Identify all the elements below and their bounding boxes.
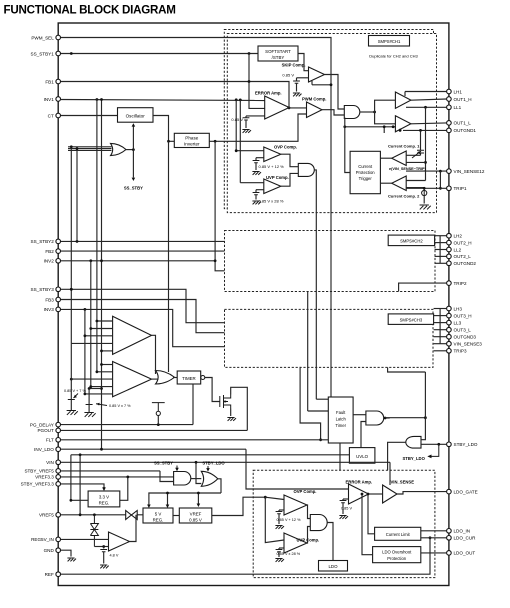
svg-text:0.85 V x 7 %: 0.85 V x 7 % xyxy=(109,404,131,408)
svg-text:4.8 V: 4.8 V xyxy=(110,554,119,558)
wire STBY_VREF5 xyxy=(61,470,160,472)
svg-text:0.85 V x 28 %: 0.85 V x 28 % xyxy=(277,552,301,556)
svg-text:LDO: LDO xyxy=(328,564,338,569)
svg-text:VIN_SENSE: VIN_SENSE xyxy=(391,479,415,484)
pin INV3 xyxy=(56,307,61,312)
wire cc2 inputs xyxy=(406,180,425,182)
op-amp current comparator 2 xyxy=(392,176,407,191)
wire OUT3_L xyxy=(434,329,447,331)
wire LL2 xyxy=(435,249,447,251)
wire cc2 out xyxy=(380,182,391,184)
wire trigger to low driver xyxy=(345,126,396,128)
wire fault and output xyxy=(384,417,390,419)
svg-text:SKIP Comp.: SKIP Comp. xyxy=(282,62,306,67)
pin INV2 xyxy=(56,259,61,264)
bus INV1 down xyxy=(96,99,98,372)
softstart box xyxy=(258,46,298,61)
dashed box CH1 inner xyxy=(227,34,436,213)
wire STBY_VREF3.3 xyxy=(61,484,104,488)
wire REF xyxy=(61,538,430,574)
wire bus inv1 down to UVP xyxy=(239,100,241,183)
wire OUT2_L xyxy=(435,255,447,257)
wire fault ch1 down to latch xyxy=(314,170,316,399)
pin LDO_GATE xyxy=(447,489,452,494)
svg-text:LDO_IN: LDO_IN xyxy=(454,529,471,534)
pin FB2 xyxy=(56,249,61,254)
wire ss_stby label arrow xyxy=(176,466,178,469)
pin TRIP2 xyxy=(447,281,452,286)
pin TRIP1 xyxy=(447,186,452,191)
svg-text:0.85 V + 7 %: 0.85 V + 7 % xyxy=(64,389,86,393)
svg-text:UVLO: UVLO xyxy=(356,454,369,459)
svg-text:/STBY: /STBY xyxy=(272,55,285,60)
wire VREF3.3 wrap xyxy=(61,477,128,500)
wire phase inverter signal to pwm comp xyxy=(226,114,307,141)
svg-text:STBY_VREF3.3: STBY_VREF3.3 xyxy=(21,482,55,487)
wire reg33 left xyxy=(70,455,72,501)
wire ovp ldo to and xyxy=(307,505,310,519)
wire TRIP3 xyxy=(434,350,447,352)
wire VIN xyxy=(61,461,390,463)
wire vref33 to master and xyxy=(128,476,174,478)
wire fault ch3 down xyxy=(300,367,321,440)
svg-text:SS_STBY3: SS_STBY3 xyxy=(31,287,55,292)
wire current limit ldo_cur xyxy=(421,537,447,539)
svg-text:Trigger: Trigger xyxy=(359,176,373,181)
driver amp low side xyxy=(395,116,411,132)
wire aux to ref2 xyxy=(89,388,101,390)
wire uvlo input xyxy=(71,454,350,456)
wire fault to stby gate xyxy=(421,372,425,440)
wire oscillator output to phase inverter xyxy=(153,116,174,142)
current source TRIP1 xyxy=(422,190,427,195)
svg-text:Oscillator: Oscillator xyxy=(126,114,146,119)
label box SMPS#CH1 xyxy=(369,36,410,47)
svg-text:0.85 V: 0.85 V xyxy=(282,73,294,78)
dashed box CH3 xyxy=(225,309,434,367)
svg-text:INV2: INV2 xyxy=(44,259,55,264)
svg-text:FB1: FB1 xyxy=(45,79,54,84)
op-amp OVP comparator CH1 xyxy=(264,147,281,162)
wire uvp ldo to and xyxy=(307,527,310,544)
pin FLT xyxy=(56,438,61,443)
svg-text:LL1: LL1 xyxy=(454,105,462,110)
zener pair D1 xyxy=(90,515,98,547)
vref ldo ovp xyxy=(279,509,284,511)
pin VIN xyxy=(56,460,61,465)
wire ovp to and xyxy=(281,154,299,167)
wire OUT3_H xyxy=(434,315,447,317)
pin TRIP3 xyxy=(447,349,452,354)
svg-text:VREF3.3: VREF3.3 xyxy=(35,475,54,480)
svg-text:TRIP1: TRIP1 xyxy=(454,186,467,191)
bus INV2 down xyxy=(90,261,92,387)
svg-text:OVP Comp.: OVP Comp. xyxy=(274,145,297,150)
wire and master out to or xyxy=(191,478,202,480)
wire FB2 xyxy=(61,250,225,252)
svg-text:e(VIN_SENSE−TRIP): e(VIN_SENSE−TRIP) xyxy=(389,167,427,171)
pin LDO_OUT xyxy=(447,551,452,556)
svg-text:ERROR Amp.: ERROR Amp. xyxy=(346,479,373,484)
wire current limit ldo_in xyxy=(421,530,447,532)
svg-text:STBY_VREF5: STBY_VREF5 xyxy=(24,469,54,474)
pin OUT1_L xyxy=(447,121,452,126)
svg-text:REG5V_IN: REG5V_IN xyxy=(31,537,54,542)
svg-text:OUT1_H: OUT1_H xyxy=(454,97,472,102)
uvlo box xyxy=(349,448,375,464)
wire timer bottom to pgdelay xyxy=(192,384,194,425)
svg-text:Protection: Protection xyxy=(356,170,376,175)
svg-text:REF: REF xyxy=(45,572,54,577)
svg-text:OVP Comp.: OVP Comp. xyxy=(294,489,317,494)
wire mosfet drain up xyxy=(231,387,248,430)
svg-text:PWM Comp.: PWM Comp. xyxy=(302,97,326,102)
wire stby gate out down to ldo xyxy=(388,442,406,470)
wires comparator inputs upper xyxy=(97,320,113,322)
wire zener to opamp xyxy=(94,546,108,548)
pin LL3 xyxy=(447,320,452,325)
cap 4.8V xyxy=(100,550,107,552)
svg-text:VREF5: VREF5 xyxy=(39,513,54,518)
svg-text:PGOUT: PGOUT xyxy=(37,428,54,433)
wire SS_STBY2 xyxy=(61,240,225,242)
current protection trigger box xyxy=(350,151,380,193)
wire error amp out to pwm comp xyxy=(287,107,307,109)
wire clock bus down xyxy=(168,141,170,372)
wire stby_vref5 to and xyxy=(160,471,174,482)
svg-text:TRIP3: TRIP3 xyxy=(454,349,467,354)
wire 5vreg to vref box xyxy=(173,515,179,517)
wire uvp to and xyxy=(281,173,299,186)
svg-text:LL3: LL3 xyxy=(454,320,462,325)
svg-text:SMPS#CH2: SMPS#CH2 xyxy=(400,239,423,244)
svg-text:SMPS#CH3: SMPS#CH3 xyxy=(400,317,423,322)
pin LDO_IN xyxy=(447,529,452,534)
wire SS_STBY1 to softstart xyxy=(61,53,258,55)
svg-text:FLT: FLT xyxy=(46,438,54,443)
label box SMPS#CH3 xyxy=(388,314,433,325)
pin SS_STBY3 xyxy=(56,287,61,292)
pin LDO_CUR xyxy=(447,536,452,541)
wire opamp minus ref xyxy=(103,547,105,549)
wire PWM_SEL xyxy=(61,38,331,398)
wire or master out xyxy=(218,479,221,493)
wire inv_ldo to error xyxy=(246,449,349,489)
wire CT to oscillator xyxy=(61,115,118,117)
op-amp LDO error amp xyxy=(349,484,369,504)
svg-text:TRIP2: TRIP2 xyxy=(454,281,467,286)
pin LL2 xyxy=(447,247,452,252)
wire inv to ovp xyxy=(236,150,264,152)
wire LH2 xyxy=(435,235,447,237)
IC boundary xyxy=(58,23,449,586)
ldo overshoot box xyxy=(373,547,421,563)
timer output bubble xyxy=(201,376,205,380)
svg-text:PG_DELAY: PG_DELAY xyxy=(30,422,54,427)
wire or input from vin xyxy=(196,462,201,483)
svg-text:LDO Overshoot: LDO Overshoot xyxy=(382,549,412,554)
wire LL1 xyxy=(406,106,446,108)
svg-text:OUTGND2: OUTGND2 xyxy=(454,261,477,266)
oscillator box xyxy=(118,108,154,123)
wire buffer out LDO_GATE xyxy=(397,492,446,494)
pin LH3 xyxy=(447,306,452,311)
wire fault ch1 to latch xyxy=(316,398,328,400)
svg-text:PWM_SEL: PWM_SEL xyxy=(31,35,54,40)
pin FB1 xyxy=(56,79,61,84)
op-amp PWM comparator xyxy=(307,102,323,118)
transistor M1 pg mosfet xyxy=(220,395,231,409)
svg-text:Current Limit: Current Limit xyxy=(386,532,411,537)
wire LH3 xyxy=(434,308,447,310)
wire PGOUT xyxy=(61,429,248,431)
dashed box CH1 outer xyxy=(224,30,433,209)
svg-text:OUT3_H: OUT3_H xyxy=(454,313,472,318)
svg-text:0.85 V: 0.85 V xyxy=(189,517,202,522)
op-amp ERROR amp CH1 xyxy=(265,96,290,119)
pin OUT2_L xyxy=(447,254,452,259)
wire ss2 bus up to or xyxy=(76,149,78,242)
svg-text:ERROR Amp.: ERROR Amp. xyxy=(255,91,282,96)
svg-text:OUTGND3: OUTGND3 xyxy=(454,335,477,340)
pin PGOUT xyxy=(56,428,61,433)
wire OUT1_L xyxy=(411,122,447,125)
and gate stby_ldo (left facing) xyxy=(406,436,421,448)
pin GND xyxy=(56,548,61,553)
svg-text:STBY_LDO: STBY_LDO xyxy=(454,442,478,447)
svg-text:SS_STBY1: SS_STBY1 xyxy=(31,51,55,56)
svg-text:INV3: INV3 xyxy=(44,307,55,312)
wire sense to trip xyxy=(439,171,441,188)
wire stby_ldo label arrow xyxy=(207,466,209,469)
ref bar pg2 xyxy=(86,404,93,406)
wire cc1 out xyxy=(380,157,391,159)
op-amp LDO UVP comparator xyxy=(284,533,307,553)
wire opamp out xyxy=(130,515,137,542)
wire lower comp to or xyxy=(152,378,159,380)
wire PG_DELAY xyxy=(61,424,193,426)
wire vref5 sense up xyxy=(79,455,81,515)
op-amp UVP comparator CH1 xyxy=(264,179,281,194)
wire VIN_SENSE3 xyxy=(434,343,447,345)
wire TRIP2 xyxy=(399,283,447,291)
pin REG5V_IN xyxy=(56,537,61,542)
pin SS_STBY1 xyxy=(56,51,61,56)
svg-text:INV1: INV1 xyxy=(44,97,55,102)
svg-text:LH1: LH1 xyxy=(454,89,463,94)
svg-text:SS_STBY: SS_STBY xyxy=(124,185,143,190)
pin OUT3_H xyxy=(447,313,452,318)
svg-text:VIN_SENSE3: VIN_SENSE3 xyxy=(454,342,483,347)
svg-text:5 V: 5 V xyxy=(155,511,162,516)
wire pwm comp out to and xyxy=(322,110,344,115)
pin OUTGND3 xyxy=(447,334,452,339)
svg-text:0.85 V + 12 %: 0.85 V + 12 % xyxy=(277,518,302,522)
svg-text:UVP Comp.: UVP Comp. xyxy=(266,175,289,180)
wire reg arrows xyxy=(149,493,221,505)
5V REG box xyxy=(143,508,173,523)
pin STBY_LDO xyxy=(447,442,452,447)
wire FB3 staircase xyxy=(61,300,225,333)
label box SMPS#CH2 xyxy=(388,235,434,246)
wire INV2 xyxy=(61,260,215,262)
wire driver ref to outgnd xyxy=(399,129,401,131)
svg-text:LDO_GATE: LDO_GATE xyxy=(454,489,478,494)
svg-text:Duplicate for CH2 and CH3: Duplicate for CH2 and CH3 xyxy=(369,54,418,59)
wire STBY_LDO pin to gate xyxy=(421,443,447,445)
pin VREF3.3 xyxy=(56,475,61,480)
driver amp high side xyxy=(395,92,411,108)
wire error to buffer xyxy=(369,493,383,495)
svg-text:OUTGND1: OUTGND1 xyxy=(454,128,477,133)
wire TRIP1 xyxy=(406,187,447,189)
3.3V REG box xyxy=(88,491,120,507)
switch bowtie xyxy=(126,511,138,520)
svg-text:Protection: Protection xyxy=(387,556,407,561)
svg-text:SOFTSTART: SOFTSTART xyxy=(265,49,291,54)
bus aux down xyxy=(101,100,103,450)
wire softstart to skip comp xyxy=(298,54,309,71)
pin OUT1_H xyxy=(447,97,452,102)
pin REF xyxy=(56,572,61,577)
svg-text:Fault: Fault xyxy=(336,410,346,415)
wire OUTGND1 xyxy=(403,129,446,131)
wire fault ch3 to stby gate xyxy=(388,367,426,372)
pin LH1 xyxy=(447,89,452,94)
svg-text:OUT3_L: OUT3_L xyxy=(454,328,472,333)
svg-text:STBY_LDO: STBY_LDO xyxy=(403,456,426,461)
wire SS or output to node xyxy=(126,149,133,151)
svg-text:LH3: LH3 xyxy=(454,306,463,311)
or gate PG xyxy=(156,371,175,385)
pin LH2 xyxy=(447,233,452,238)
wire inv to uvp xyxy=(240,182,263,184)
pin OUT3_L xyxy=(447,327,452,332)
svg-text:Current Comp. 1: Current Comp. 1 xyxy=(388,144,420,149)
wire phase out bus down to CH2 xyxy=(215,141,224,270)
wire INV1 to error amp xyxy=(61,100,265,101)
wire LL1 sense down xyxy=(425,107,427,180)
wire ldo comp inputs xyxy=(253,496,265,498)
wire or to timer xyxy=(173,377,177,379)
pin PG_DELAY xyxy=(56,422,61,427)
wire inv_ldo xyxy=(61,448,246,450)
pin INV_LDO xyxy=(56,447,61,452)
current limit box xyxy=(375,527,421,540)
vref ovp ch1 xyxy=(256,157,264,159)
wire cc1 minus input xyxy=(406,161,425,163)
comparator PG upper xyxy=(113,316,152,354)
wire ss1 bus down xyxy=(70,147,72,344)
wires comparator inputs lower xyxy=(102,364,113,366)
and gate driver xyxy=(344,106,360,119)
svg-text:Inverter: Inverter xyxy=(184,142,200,147)
wire skip comp out to and xyxy=(325,75,345,110)
svg-text:0.85 V x 28 %: 0.85 V x 28 % xyxy=(259,198,284,203)
svg-text:LDO_CUR: LDO_CUR xyxy=(454,536,477,541)
pin OUT2_H xyxy=(447,240,452,245)
svg-text:VIN: VIN xyxy=(46,460,54,465)
wire upper comp to or xyxy=(152,335,156,374)
fault latch timer box xyxy=(328,397,353,443)
pin SS_STBY2 xyxy=(56,239,61,244)
pin FB3 xyxy=(56,297,61,302)
wire SS_STBY3 staircase xyxy=(61,289,225,322)
svg-text:Timer: Timer xyxy=(335,423,346,428)
wire and out to drivers xyxy=(360,111,375,113)
and gate ovp uvp xyxy=(298,163,314,176)
wire overshoot ldo_out xyxy=(421,552,447,554)
svg-text:FB3: FB3 xyxy=(45,297,54,302)
timer box xyxy=(177,371,201,384)
svg-text:STBY_LDO: STBY_LDO xyxy=(202,461,225,466)
op-amp SKIP comparator xyxy=(309,67,325,82)
svg-text:FUNCTIONAL BLOCK DIAGRAM: FUNCTIONAL BLOCK DIAGRAM xyxy=(4,4,176,17)
cap PG_DELAY xyxy=(152,403,165,412)
wire FB1 feedback wrap xyxy=(61,82,289,108)
pin OUTGND1 xyxy=(447,128,452,133)
op-amp reg5 buffer xyxy=(109,532,130,551)
svg-text:Latch: Latch xyxy=(336,417,347,422)
svg-text:LH2: LH2 xyxy=(454,234,463,239)
svg-text:SMPS#CH1: SMPS#CH1 xyxy=(378,39,401,44)
wire FLT xyxy=(61,439,329,441)
svg-text:Current Comp. 2: Current Comp. 2 xyxy=(388,194,420,199)
svg-text:0.85 V + 12 %: 0.85 V + 12 % xyxy=(259,164,285,169)
wire OUTGND1 sense down xyxy=(420,130,422,150)
svg-text:REG.: REG. xyxy=(153,517,164,522)
svg-text:VIN_SENSE12: VIN_SENSE12 xyxy=(454,169,485,174)
wire OUT2_H xyxy=(435,242,447,244)
op-amp LDO OVP comparator xyxy=(284,495,307,515)
wire OUTGND3 xyxy=(434,336,447,338)
VREF box xyxy=(179,508,212,523)
wire VREF5 xyxy=(61,514,143,516)
svg-text:VREF: VREF xyxy=(190,511,202,516)
wire phase inverter output into CH1 xyxy=(209,140,226,142)
svg-text:OUT2_L: OUT2_L xyxy=(454,254,472,259)
svg-text:3.3 V: 3.3 V xyxy=(99,494,109,499)
wire ss1 branch to error amp xyxy=(249,54,265,109)
wire vref box to ldo xyxy=(212,497,253,515)
wire ldo and out xyxy=(327,523,333,561)
svg-text:INV_LDO: INV_LDO xyxy=(34,447,54,452)
wire LL3 xyxy=(434,322,447,324)
wire SS or inputs xyxy=(68,146,112,148)
svg-text:OUT1_L: OUT1_L xyxy=(454,121,472,126)
or gate SS_STBY combine xyxy=(111,143,127,155)
wire uvlo to and xyxy=(361,422,366,448)
svg-text:Current: Current xyxy=(358,164,373,169)
op-amp current comparator 1 xyxy=(392,151,407,166)
svg-text:GND: GND xyxy=(44,548,55,553)
wire bus inv1 down to OVP xyxy=(235,100,237,151)
wire cc1 plus input xyxy=(406,154,420,156)
svg-text:FB2: FB2 xyxy=(45,249,54,254)
pin LL1 xyxy=(447,105,452,110)
pin VIN_SENSE12 xyxy=(447,169,452,174)
dashed box CH2 xyxy=(225,231,436,292)
wire OUTGND2 xyxy=(435,262,447,264)
wire trigger up to and xyxy=(345,118,350,173)
and gate fault xyxy=(366,411,384,425)
dashed box LDO xyxy=(253,470,435,577)
and gate ldo fault xyxy=(310,515,327,531)
svg-text:SS_STBY: SS_STBY xyxy=(154,461,173,466)
wire latch to and xyxy=(353,414,366,416)
wire INV3 staircase xyxy=(61,309,225,346)
svg-text:CT: CT xyxy=(48,113,54,118)
